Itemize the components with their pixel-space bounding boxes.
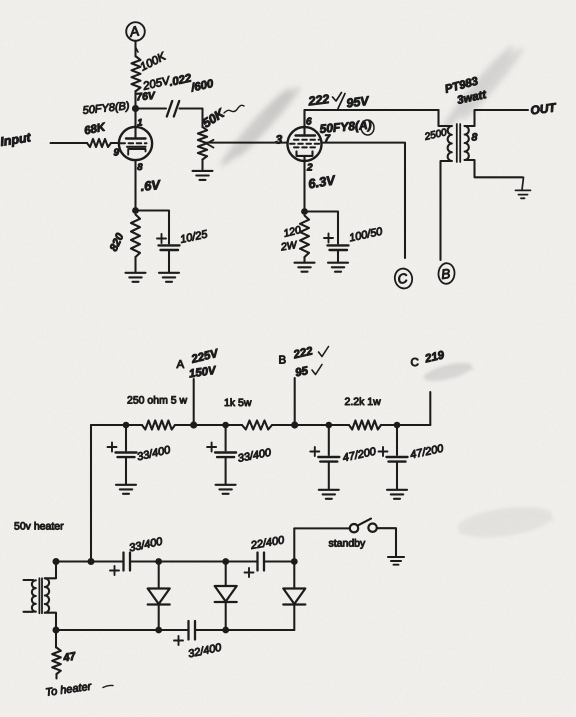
wire: rectifier bottom rail seg 1 <box>56 629 188 631</box>
wire: 120 to ground <box>303 257 305 262</box>
wire: rectifier bottom rail seg 2 <box>196 629 294 631</box>
capacitor 10/25 plates <box>159 245 180 250</box>
wire: V2 cathode down <box>303 161 305 212</box>
label 50v heater <box>14 521 64 533</box>
pin 2 (V2 cathode) <box>306 163 313 174</box>
wire: B+ rail segment 3 <box>272 424 349 426</box>
node B (circled) <box>438 263 455 285</box>
potentiometer 50K element <box>198 127 207 160</box>
wire: primary lead from rail <box>439 110 452 126</box>
capacitor .022/600 coupling plates <box>167 101 179 117</box>
diode D2 <box>215 562 237 631</box>
label 22/400 (doubler) <box>249 534 286 552</box>
switch standby lever <box>358 519 371 526</box>
svg-text:76V: 76V <box>136 90 157 104</box>
wire: B+ rail segment 4 <box>381 424 430 426</box>
tube V1 50FY8 triode section <box>119 109 152 160</box>
label 10/25 <box>179 228 209 246</box>
label 8 (secondary) <box>472 132 478 144</box>
wire: primary bottom to node B <box>441 161 452 260</box>
capacitor 100/50 plates <box>328 245 349 250</box>
junction: D2 bottom <box>222 627 229 634</box>
resistor 47 heater dropper <box>52 648 61 679</box>
wire: standby lead left <box>294 527 350 529</box>
capacitor 32/400 doubler plates <box>189 621 196 640</box>
ground (standby) <box>388 557 404 565</box>
ground (pot 50K) <box>193 171 213 180</box>
label 33/400 (doubler) <box>128 536 164 555</box>
junction: D1 anode <box>155 558 162 565</box>
label 95v <box>294 365 322 380</box>
wire: 820 to ground <box>134 257 136 273</box>
wire: 10/25 to ground <box>168 250 170 273</box>
pin 7 (V2 screen) <box>325 134 331 145</box>
transformer T2 primary winding 2500 <box>448 126 452 161</box>
junction: V1 cathode node <box>132 207 139 214</box>
tube V2 50FY8 pentode section <box>288 110 322 161</box>
label .022/600 <box>168 72 215 94</box>
junction: D1 cathode rail <box>155 627 162 634</box>
capacitor 33/400 doubler polarity + <box>110 566 119 575</box>
capacitor 33/400 doubler plates <box>124 553 131 571</box>
label 222v <box>292 345 329 361</box>
pin 6 (V2 plate) <box>306 117 312 128</box>
wire: cathode node to 100/50 cap <box>305 212 339 244</box>
ground (cap 10/25) <box>159 273 179 282</box>
wire: node A to 100K <box>136 41 139 57</box>
label 2W <box>279 239 298 254</box>
ground (output secondary) <box>516 177 531 198</box>
label 2500 <box>423 127 449 143</box>
ground (120 2W) <box>295 263 315 272</box>
label 100/50 <box>348 226 384 245</box>
svg-text:3: 3 <box>276 133 283 147</box>
wire: rectifier top rail seg 1 <box>56 560 123 562</box>
svg-text:2: 2 <box>306 163 313 174</box>
wire: secondary bottom to ground <box>465 160 523 177</box>
resistor 100K plate load <box>132 57 141 92</box>
label 68K <box>83 122 107 138</box>
wire: node A stub <box>193 379 195 425</box>
capacitor 22/400 doubler polarity + <box>245 568 254 577</box>
svg-text:A: A <box>177 359 185 371</box>
capacitor 47/200 filter 4 <box>379 425 408 499</box>
label B (node B) <box>279 355 287 367</box>
svg-text:1: 1 <box>137 118 142 129</box>
svg-text:222: 222 <box>307 92 330 109</box>
label 219 <box>423 349 446 365</box>
pin 9 (V1 grid) <box>114 148 120 159</box>
wire: pot wiper to V2 grid pin 3 <box>207 142 288 144</box>
svg-text:C: C <box>411 357 419 369</box>
label 76V <box>136 90 157 104</box>
diode D1 <box>148 562 170 631</box>
transformer T1 primary lead bottom <box>24 611 34 613</box>
transformer T1 primary winding <box>32 580 36 611</box>
pin 8 (V1 cathode) <box>137 162 143 173</box>
wire: node B stub <box>294 378 296 425</box>
junction: filter cap 1 node <box>123 422 130 429</box>
svg-text:9: 9 <box>114 148 120 159</box>
junction: filter cap 3 node <box>326 422 333 429</box>
svg-text:2.2k 1w: 2.2k 1w <box>345 396 382 408</box>
label standby <box>329 538 367 550</box>
wire: pot to ground <box>201 160 203 171</box>
label 820 <box>108 231 127 254</box>
svg-text:50v heater: 50v heater <box>14 521 64 533</box>
wire: V2 screen pin7 to node C <box>322 143 405 258</box>
wire: cathode node to bypass cap <box>136 211 170 244</box>
label 205V <box>141 75 172 93</box>
label 50K <box>200 105 244 130</box>
label 32/400 <box>187 642 223 661</box>
transformer T1 primary lead top <box>24 579 34 581</box>
label Input <box>0 130 32 149</box>
junction: V2 cathode node <box>301 208 308 215</box>
wire: T1 secondary bottom lead <box>45 613 56 630</box>
label 50FY8(A) <box>319 118 375 136</box>
svg-text:8: 8 <box>137 162 143 173</box>
pin 3 (V2 grid) <box>276 133 283 147</box>
transformer T1 secondary winding 50V <box>45 578 49 612</box>
label 1k 5w <box>224 397 252 409</box>
label PT983 3watt <box>444 75 489 107</box>
transformer T2 core <box>457 124 460 162</box>
junction: filter cap 4 node <box>394 422 401 429</box>
resistor 68K grid stopper <box>87 139 111 147</box>
wire: coupling cap to pot top <box>180 109 203 128</box>
capacitor 33/400 filter 1 <box>108 425 137 494</box>
junction: node B on rail <box>291 421 298 428</box>
resistor 820 cathode <box>131 215 140 258</box>
junction: node A on rail <box>190 421 197 428</box>
wire: input lead <box>51 142 88 144</box>
junction: secondary bottom <box>53 627 60 634</box>
ground (820) <box>126 273 146 282</box>
resistor 250 ohm 5w <box>142 421 175 430</box>
label 33/400 (filter 1) <box>136 444 172 463</box>
wire: secondary node to 47 <box>55 630 57 648</box>
svg-text:B: B <box>279 355 287 367</box>
junction: D3 top <box>291 558 298 565</box>
capacitor 47/200 filter 3 <box>310 425 339 499</box>
label OUT <box>530 100 559 117</box>
wire: B+ rail segment 2 <box>175 424 242 426</box>
label 47/200 (filter 3) <box>342 446 378 465</box>
capacitor 22/400 doubler plates <box>258 553 265 571</box>
junction: B+ takeoff <box>88 558 95 565</box>
svg-text:250 ohm 5 w: 250 ohm 5 w <box>127 395 188 407</box>
wire: T1 secondary top lead <box>45 562 56 579</box>
label 50FY8(B) <box>82 100 130 117</box>
junction: D2 top <box>222 558 229 565</box>
node A (circled B+ tap A) <box>126 22 145 41</box>
label 47 <box>61 650 77 664</box>
label 33/400 (filter 2) <box>237 447 273 465</box>
wire: 68K to V1 grid <box>111 142 119 144</box>
node C (circled) <box>393 267 414 290</box>
label 47/200 (filter 4) <box>409 443 445 462</box>
label 6.3V <box>307 172 337 191</box>
label 225V <box>189 347 220 366</box>
label 2.2k 1w <box>345 396 382 408</box>
svg-text:95V: 95V <box>346 94 371 111</box>
wire: 100K to V1 plate <box>134 91 136 109</box>
svg-text:B: B <box>441 266 452 282</box>
junction: filter cap 2 node <box>222 422 229 429</box>
capacitor 32/400 polarity + <box>174 636 183 645</box>
capacitor 100/50 polarity + <box>324 234 333 243</box>
transformer T2 secondary winding 8 <box>465 126 469 160</box>
wire: standby lead right <box>377 528 396 556</box>
wire: B+ rail down to rectifier <box>90 425 92 562</box>
transformer T1 core <box>39 578 42 613</box>
junction: transformer secondary top <box>53 558 60 565</box>
svg-text:6: 6 <box>306 117 312 128</box>
label 150V <box>188 365 218 381</box>
resistor 1k 5w <box>242 421 272 430</box>
wire: rectifier top rail seg 3 <box>265 560 295 562</box>
svg-text:.6V: .6V <box>140 177 162 194</box>
pin 1 (V1 plate) <box>137 118 142 129</box>
capacitor 10/25 polarity + <box>157 234 166 243</box>
junction: V1 plate node <box>132 105 139 112</box>
wire: node C stub <box>429 392 431 425</box>
svg-text:1k 5w: 1k 5w <box>224 397 252 409</box>
wire: V1 cathode to node <box>134 160 136 210</box>
label C (node C) <box>411 357 419 369</box>
label 222/95V (plate supply B) <box>307 92 371 110</box>
label A (node A) <box>177 359 185 371</box>
wire: rectifier top rail seg 2 <box>131 560 257 562</box>
wire: B+ rail segment 1 <box>91 424 142 426</box>
wire: plate node to coupling cap <box>139 107 167 109</box>
switch standby terminal 1 <box>350 524 358 532</box>
wire: 100/50 to ground <box>337 250 339 262</box>
label To heater <box>45 680 113 698</box>
label .6V <box>140 177 162 194</box>
label 250 ohm 5 w <box>127 395 188 407</box>
resistor 120 2W cathode <box>300 216 309 258</box>
diode D3 <box>283 562 305 631</box>
resistor 2.2k 1w <box>349 421 381 430</box>
pot wiper arrow <box>207 140 214 148</box>
svg-text:standby: standby <box>329 538 367 550</box>
wire: standby riser <box>293 528 295 561</box>
wire: V2 plate rail <box>305 110 439 127</box>
ground (cap 100/50) <box>328 263 348 272</box>
capacitor 33/400 filter 2 <box>207 425 236 494</box>
switch standby terminal 2 <box>368 524 376 532</box>
label 120 <box>282 224 302 240</box>
label 100K <box>138 50 169 73</box>
wire: secondary top to OUT <box>465 110 528 126</box>
svg-text:8: 8 <box>472 132 478 144</box>
